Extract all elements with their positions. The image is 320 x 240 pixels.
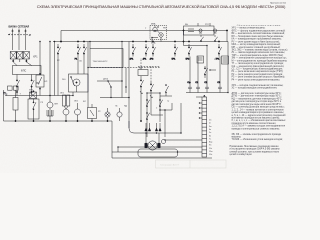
contact 4Р2 [152, 44, 154, 47]
command unit box [184, 26, 215, 35]
main bus wire [53, 41, 228, 43]
contact hanging at x61 [57, 44, 59, 47]
contact 4Р1 [145, 44, 147, 47]
svg-text:схемой условно, при условии ви: схемой условно, при условии видимости вс… [230, 150, 280, 153]
thermostat wire [97, 80, 122, 82]
wire y97.5 [100, 97, 129, 99]
aux motor box [69, 74, 89, 92]
svg-text:С1...С3 — конденсаторы помехоп: С1...С3 — конденсаторы помехоподавляющие… [232, 69, 283, 71]
suppression capacitors [188, 84, 192, 92]
aux contact [83, 44, 85, 47]
svg-text:Приложение №1: Приложение №1 [270, 2, 287, 5]
svg-text:10г: 10г [209, 148, 212, 150]
wire y110 [160, 103, 172, 137]
svg-text:Сф: Сф [187, 81, 191, 84]
svg-text:машины;: машины; [232, 137, 242, 139]
tub dashed boundary [88, 67, 160, 69]
svg-text:Р2 — реле реверса электродвига: Р2 — реле реверса электродвигателя приво… [232, 74, 284, 76]
contact 2Р1 [132, 44, 134, 47]
drain pump MN [47, 102, 53, 108]
svg-text:11ж: 11ж [209, 151, 213, 153]
small header boxes [8, 86, 13, 90]
svg-text:Р4 — реле пуска электродвигате: Р4 — реле пуска электродвигателя машины; [232, 79, 281, 81]
svg-text:1,2,3,7,8,14 — зажимы колодок: 1,2,3,7,8,14 — зажимы колодок электродви… [232, 126, 286, 128]
svg-text:Сф — конденсатор фазосдвигающи: Сф — конденсатор фазосдвигающий двигател… [232, 65, 285, 68]
timer motor cluster [150, 26, 167, 40]
svg-text:ТО-МФ — обозначения углов выво: ТО-МФ — обозначения углов выводов колодк… [232, 138, 284, 141]
svg-text:7с: 7с [209, 138, 211, 140]
speed contact 2 [159, 99, 160, 100]
right risers x122 126 129 [122, 42, 129, 122]
connector block with X [30, 92, 37, 99]
command box interior [199, 29, 202, 32]
heater relay contact [77, 44, 79, 47]
riser x129 to motor [128, 121, 130, 128]
svg-text:Примечание. Монтажные соединен: Примечание. Монтажные соединения машин [230, 146, 280, 148]
svg-text:ФПС: ФПС [21, 70, 27, 73]
svg-text:О б о з н а ч е н и я э л е: О б о з н а ч е н и я э л е м е н т о в … [237, 25, 282, 27]
plug break line [8, 34, 31, 36]
bus of lower-left cluster [5, 95, 73, 97]
motor feed curve [129, 121, 134, 133]
svg-text:ТГ — тахогенератор электродвиг: ТГ — тахогенератор электродвигателя прив… [232, 63, 284, 65]
switch VK contacts [16, 77, 18, 80]
riser from plug to buses [50, 31, 61, 96]
svg-text:Типография АООТ: Типография АООТ [160, 164, 180, 167]
leads below connector [13, 59, 31, 66]
contact 7Р1 [218, 44, 220, 47]
riser x181 [180, 103, 182, 133]
connector X1 contacts [10, 52, 16, 60]
svg-text:цепей командоаппарата программ: цепей командоаппарата программного машин… [232, 111, 285, 114]
svg-text:ХР1: ХР1 [33, 56, 38, 59]
legend heading [230, 25, 289, 156]
pressure switch RU [88, 108, 97, 119]
svg-text:1, 2, 3...14 — номера контакто: 1, 2, 3...14 — номера контактов и электр… [232, 109, 285, 111]
aux relay box [138, 70, 148, 76]
svg-text:МН: МН [55, 104, 59, 106]
strip left taps [199, 102, 202, 104]
wires to terminal strip [112, 140, 202, 152]
resistor R1 [13, 98, 18, 111]
arrows [140, 91, 153, 98]
wires below filter [17, 75, 32, 78]
upper bus wire [61, 30, 227, 32]
svg-text:М — электродвигатель привода б: М — электродвигатель привода барабана ма… [232, 60, 288, 62]
motor brush contact pair A [146, 123, 150, 128]
svg-text:ХВ, ХФ — клеммы электродвигате: ХВ, ХФ — клеммы электродвигателя привода [232, 133, 282, 136]
svg-text:ЭМ — электромагнит распределит: ЭМ — электромагнит распределителя моющих… [232, 58, 288, 60]
heater TEN box [90, 49, 123, 68]
svg-text:Р3 — реле отжима (высокая скор: Р3 — реле отжима (высокая скорость бараб… [232, 77, 286, 79]
svg-text:НД — нагреватель датчика темпе: НД — нагреватель датчика температуры 40°… [232, 98, 283, 100]
motor brush contact pair B [157, 123, 161, 128]
svg-text:Л1 — лампа индикации включения: Л1 — лампа индикации включения сети маши… [232, 52, 286, 54]
pump impeller comb [47, 110, 53, 121]
svg-text:ВК — выключатель сетевой машин: ВК — выключатель сетевой машины клавишны… [232, 32, 286, 35]
valve EK1 twin coil [63, 95, 66, 106]
svg-text:ХР1 — вилка сетевая машины;: ХР1 — вилка сетевая машины; [232, 28, 266, 30]
contact 5Р1 [174, 44, 176, 47]
svg-text:МКА: МКА [151, 23, 156, 26]
svg-text:6з: 6з [209, 135, 211, 137]
svg-text:датчик-реле температуры стирки: датчик-реле температуры стирки воды 60°С… [232, 101, 282, 103]
svg-text:и их расцветка проводов СМА-4,: и их расцветка проводов СМА-4,5 ФБ указа… [230, 148, 280, 151]
reverse contact 3 [146, 112, 147, 113]
junction dots on bottom bus [15, 120, 16, 121]
bottom frame wire [112, 121, 212, 158]
svg-text:МН — электронасос сливной цент: МН — электронасос сливной центробежный; [232, 46, 281, 49]
door lock branch [39, 42, 41, 96]
lamp L [105, 112, 110, 117]
drive motor M1 [148, 141, 157, 150]
plug XP1 pins [12, 30, 14, 32]
speed contact 1 [146, 99, 147, 100]
svg-text:а, б, в, г...14 — адреса элект: а, б, в, г...14 — адреса электрических с… [232, 114, 287, 117]
spin contact mid [165, 84, 166, 85]
svg-text:ТЭН — электронагреватель воды: ТЭН — электронагреватель воды 1000 Вт (б… [232, 55, 284, 57]
svg-text:ВИЛКА СЕТЕВАЯ: ВИЛКА СЕТЕВАЯ [9, 26, 30, 29]
right edge riser [227, 42, 229, 93]
arrow mark [4, 92, 8, 96]
svg-text:РУ — реле уровня воды в баке (: РУ — реле уровня воды в баке (прессостат… [232, 41, 281, 43]
svg-text:МКА — мотор командоаппарата си: МКА — мотор командоаппарата синхронный; [232, 43, 281, 46]
svg-text:ФПС — фильтр подавления радиоп: ФПС — фильтр подавления радиопомех сетев… [232, 29, 286, 32]
relay R2 box [197, 56, 204, 63]
svg-text:ДТ60: ДТ60 [103, 79, 109, 81]
svg-text:X2 — колодка выводов электродв: X2 — колодка выводов электродвигателя; [232, 88, 278, 90]
svg-text:БЛ — блокировка люка загрузки: БЛ — блокировка люка загрузки белья маши… [232, 36, 285, 38]
contacts under command box [201, 35, 215, 37]
svg-text:4к: 4к [209, 129, 211, 131]
relay RU box [222, 56, 229, 64]
indicator ND [117, 112, 122, 117]
contact 5Р2 [188, 44, 190, 47]
svg-text:б, г, ж, к, ч, з, с — обозначе: б, г, ж, к, ч, з, с — обозначения цветов… [232, 120, 287, 122]
wire y133 [134, 132, 181, 134]
motor brushes [145, 143, 148, 148]
terminal strip X2 [202, 97, 207, 157]
contact pair right [204, 66, 206, 68]
svg-text:ТЭН 1000-60ГС: ТЭН 1000-60ГС [93, 61, 108, 63]
svg-text:ЭК1, ЭК2 — клапаны залива воды: ЭК1, ЭК2 — клапаны залива воды (стирка, … [232, 49, 289, 51]
svg-text:5ч: 5ч [209, 132, 211, 134]
valve EK1 [63, 109, 69, 115]
svg-text:КА — командоаппарат программны: КА — командоаппарат программный машины; [232, 38, 282, 41]
svg-text:проводов жгута машины соответс: проводов жгута машины соответственно; [232, 123, 277, 125]
stator winding loop [138, 149, 178, 157]
trunk x88 [87, 42, 89, 108]
relay P3 box with contact [28, 99, 39, 119]
svg-text:ЭМ: ЭМ [139, 67, 142, 69]
mains filter FPS [13, 66, 42, 75]
svg-text:ДТ60 — датчик-реле температуры: ДТ60 — датчик-реле температуры воды 60°С… [232, 93, 282, 95]
svg-text:монтажных проводов жгута машин: монтажных проводов жгута машины (цвета); [232, 117, 281, 119]
svg-text:СБ — соленоид дозатора моющих: СБ — соленоид дозатора моющих средств ма… [232, 107, 286, 109]
svg-text:ХР2 — колодка соединительная ж: ХР2 — колодка соединительная жгута машин… [232, 85, 284, 87]
node wire left edge [4, 90, 113, 121]
svg-text:2г: 2г [209, 123, 211, 125]
relay contacts [140, 77, 142, 80]
svg-text:Р1 — реле включения нагревател: Р1 — реле включения нагревателя воды (ТЭ… [232, 71, 284, 73]
svg-text:привода и электронасоса сливно: привода и электронасоса сливного машины; [232, 128, 281, 130]
svg-text:СХЕМА ЭЛЕКТРИЧЕСКАЯ ПРИНЦИПИАЛ: СХЕМА ЭЛЕКТРИЧЕСКАЯ ПРИНЦИПИАЛЬНАЯ МАШИН… [37, 5, 286, 9]
svg-text:цепей и коммутации.: цепей и коммутации. [230, 153, 253, 156]
svg-text:12к: 12к [209, 154, 212, 156]
riser x184 [184, 31, 208, 46]
contact column mid [147, 93, 160, 137]
svg-text:ДТ90 — датчик-реле температуры: ДТ90 — датчик-реле температуры воды 90°С… [232, 96, 282, 98]
svg-text:датчик температуры воды кипяче: датчик температуры воды кипячения 90-95°… [232, 104, 282, 106]
tacho TG [161, 139, 165, 143]
faint stamp box [156, 160, 227, 168]
